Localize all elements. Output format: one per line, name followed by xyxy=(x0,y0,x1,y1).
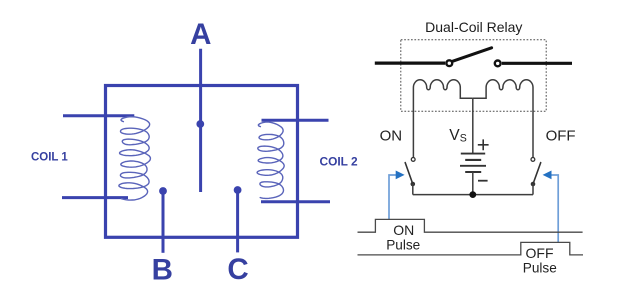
svg-text:OFF: OFF xyxy=(546,128,576,145)
battery plus sign xyxy=(478,139,489,150)
junction node on rail xyxy=(469,191,476,198)
coil 2 top lead wire xyxy=(262,119,329,122)
svg-text:Pulse: Pulse xyxy=(386,238,420,253)
relay dashed outline xyxy=(401,40,546,112)
node on A wire xyxy=(196,120,204,128)
svg-text:Pulse: Pulse xyxy=(523,261,557,276)
node on C wire xyxy=(234,186,242,194)
relay case (latching relay outline) xyxy=(106,86,298,238)
svg-text:OFF: OFF xyxy=(526,245,554,261)
battery VS plate long 1 xyxy=(461,153,485,155)
coil L2 (OFF coil) with lead to switch xyxy=(473,80,533,157)
ON switch pivot node xyxy=(411,182,416,187)
node on B wire xyxy=(159,187,167,195)
svg-text:ON: ON xyxy=(380,127,403,144)
contact pole right terminal xyxy=(495,61,501,67)
contact pole left terminal xyxy=(446,60,452,66)
OFF pulse waveform xyxy=(358,242,584,255)
wire coil junction to battery + xyxy=(472,98,474,153)
battery minus sign xyxy=(478,180,488,182)
ON switch pole terminal xyxy=(411,158,415,162)
wire terminal C xyxy=(236,190,239,252)
wire ON switch to rail xyxy=(412,184,414,195)
wire terminal A xyxy=(199,49,202,192)
svg-text:VS: VS xyxy=(449,127,466,145)
OFF switch pole terminal xyxy=(531,158,535,162)
svg-text:COIL 1: COIL 1 xyxy=(31,149,68,163)
svg-text:C: C xyxy=(227,253,248,286)
wire contact right lead xyxy=(502,62,572,65)
coil 2 bottom lead wire xyxy=(261,200,330,203)
battery plate long 2 xyxy=(460,165,486,167)
svg-text:A: A xyxy=(190,18,211,51)
contact blade (open armature) xyxy=(453,48,492,61)
coil L1 (ON coil) with lead to switch xyxy=(413,80,472,157)
svg-text:COIL 2: COIL 2 xyxy=(320,154,358,168)
OFF trigger arrow (blue) xyxy=(551,175,558,242)
battery plate short 2 xyxy=(465,171,481,173)
svg-text:ON: ON xyxy=(393,222,414,238)
OFF switch blade xyxy=(533,163,541,184)
wire bottom rail xyxy=(413,194,533,196)
OFF switch pivot node xyxy=(531,182,536,187)
coil 1 bottom lead wire xyxy=(62,196,128,199)
wire OFF switch to rail xyxy=(532,184,534,195)
coil 1 top lead wire xyxy=(63,114,134,117)
svg-text:B: B xyxy=(152,254,173,287)
wire contact left lead xyxy=(375,61,445,64)
wire terminal B xyxy=(162,191,165,253)
coil 1 winding (hand-drawn spring) xyxy=(119,117,150,200)
svg-text:Dual-Coil Relay: Dual-Coil Relay xyxy=(425,19,522,35)
ON trigger arrow (blue) xyxy=(389,175,396,219)
ON switch blade xyxy=(405,163,413,184)
coil 2 winding (hand-drawn spring) xyxy=(257,122,284,198)
battery plate short 1 xyxy=(465,159,481,161)
wire battery - to ground rail xyxy=(472,172,474,195)
ON pulse waveform xyxy=(358,219,583,232)
